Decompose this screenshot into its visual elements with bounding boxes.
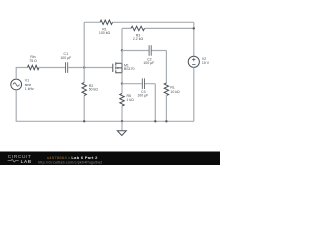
node source junction <box>121 83 123 85</box>
svg-text:75 Ω: 75 Ω <box>29 59 37 63</box>
svg-text:10 kΩ: 10 kΩ <box>170 90 180 94</box>
ground <box>121 121 123 130</box>
wire top rail <box>84 21 194 23</box>
node gate junction <box>83 66 85 68</box>
resistor Rin <box>28 65 39 69</box>
transistor M1 <box>113 62 122 73</box>
node rail junction C3 <box>154 120 156 122</box>
wire bias vertical <box>83 22 85 121</box>
svg-text:100 µF: 100 µF <box>60 56 71 60</box>
resistor R5 <box>120 94 124 107</box>
wire R3 row <box>122 27 194 29</box>
svg-text:100 kΩ: 100 kΩ <box>99 31 111 35</box>
node rail junction R5/ground <box>121 120 123 122</box>
wire V2 bottom to rail <box>193 67 195 121</box>
capacitor C1 <box>66 62 68 73</box>
svg-text:100 µF: 100 µF <box>137 94 148 98</box>
svg-text:2.2 kΩ: 2.2 kΩ <box>133 37 144 41</box>
svg-text:15 V: 15 V <box>202 61 210 65</box>
resistor R1 <box>100 20 113 24</box>
resistor R3 <box>131 26 145 30</box>
CircuitLab banner <box>0 152 220 166</box>
wire C3 row <box>122 84 155 122</box>
wire source to R5 <box>121 84 123 94</box>
svg-text:sine: sine <box>25 83 31 87</box>
capacitor C2 <box>149 45 151 56</box>
svg-text:BS170: BS170 <box>124 67 135 71</box>
wire bottom rail <box>16 90 194 121</box>
node drain/C2 junction <box>121 49 123 51</box>
wire supply vertical <box>193 22 195 56</box>
wire gate row <box>68 67 112 69</box>
voltage source V2 <box>188 56 199 67</box>
wire drain vertical <box>121 28 123 63</box>
svg-text:1 kΩ: 1 kΩ <box>127 98 135 102</box>
svg-text:1 kHz: 1 kHz <box>25 87 34 91</box>
capacitor C3 <box>142 78 144 89</box>
svg-text:LAB: LAB <box>21 159 32 164</box>
svg-text:100 µF: 100 µF <box>143 61 154 65</box>
wire Rin to C1 <box>39 67 65 69</box>
voltage source V1 (sine) <box>11 79 22 90</box>
resistor RL <box>164 83 168 96</box>
node junction supply/R3 <box>193 27 195 29</box>
wire C2 row <box>122 51 166 84</box>
wire V1 top to Rin <box>16 68 27 80</box>
svg-text:50 kΩ: 50 kΩ <box>89 88 99 92</box>
wire drain lead up / source lead down <box>121 51 123 84</box>
node rail junction RL <box>165 120 167 122</box>
svg-text:http://circuitlab.com/c/pkh4fh: http://circuitlab.com/c/pkh4fhqju5w2 <box>38 160 102 164</box>
wire R5 to rail <box>121 106 123 121</box>
node rail junction R2 <box>83 120 85 122</box>
wire RL bottom <box>165 95 167 121</box>
resistor R2 <box>82 83 86 96</box>
